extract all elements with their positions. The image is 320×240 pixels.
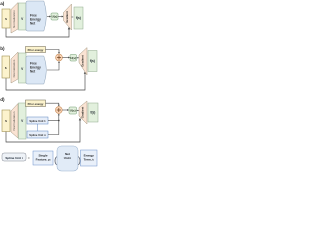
wire spline unit 1 to sum bus (panel c) — [48, 120, 59, 122]
svg-text:Term, tᵢ: Term, tᵢ — [84, 158, 95, 162]
svg-text:f(s): f(s) — [90, 59, 95, 63]
wire U(s) to gradient trapezoid (panel a) — [58, 16, 62, 18]
Free Energy Net box (panel b) — [26, 56, 46, 84]
wire U(s) to gradient trapezoid (panel c) — [77, 110, 79, 112]
wire FEN to U(s) (panel a) — [47, 16, 50, 18]
junction dot — [58, 120, 60, 122]
arrowhead into gradient trapezoid panel a — [68, 27, 70, 30]
svg-text:Prior energy: Prior energy — [28, 102, 44, 106]
U(s) box (panel a) — [51, 13, 58, 20]
svg-text:Unit i: Unit i — [64, 156, 72, 160]
svg-text:s: s — [5, 119, 7, 123]
svg-text:Spline Unit i: Spline Unit i — [5, 156, 23, 160]
svg-text:U(s): U(s) — [70, 56, 76, 60]
sum junction circle (panel c) — [55, 107, 62, 114]
gradient trapezoid (panel a) — [64, 4, 72, 30]
wire prior energy to sum (panel c) — [46, 103, 59, 105]
svg-text:f(s): f(s) — [76, 16, 81, 20]
sum junction circle (panel b) — [56, 54, 63, 61]
wire sum to U(s) (panel c) — [62, 109, 68, 111]
gradient trapezoid (panel c) — [79, 101, 87, 124]
normalization parallelogram (panel b) — [11, 52, 18, 83]
wire U(s) to gradient trapezoid (panel b) — [77, 57, 79, 59]
normalization trapezoid (panel c) — [11, 104, 18, 139]
svg-text:d): d) — [0, 97, 5, 102]
Spline Unit 1 box (panel c) — [27, 117, 48, 124]
svg-text:a): a) — [0, 1, 5, 6]
wire feedback loop panel b — [6, 73, 85, 90]
U(s) box (panel c) — [69, 107, 77, 114]
output box f(s) (panel c) — [88, 103, 98, 122]
wire prior energy to sum (panel b) — [46, 50, 60, 53]
wire feedback loop panel c — [6, 120, 80, 142]
svg-text:b): b) — [0, 46, 5, 51]
svg-text:Feature, pᵢ: Feature, pᵢ — [36, 158, 51, 162]
feature box V (panel b) — [19, 53, 27, 83]
svg-text:U(s): U(s) — [70, 109, 76, 113]
svg-text:Normalization: Normalization — [12, 111, 16, 130]
legend: net unit shape — [57, 146, 78, 171]
input box s (panel a) — [2, 9, 10, 28]
U(s) box (panel b) — [70, 55, 77, 62]
svg-text:s: s — [5, 66, 7, 70]
svg-text:s: s — [5, 17, 7, 21]
input box s (panel c) — [2, 110, 10, 132]
Free Energy Net box (panel a) — [26, 1, 46, 31]
gradient trapezoid (panel b) — [79, 48, 87, 76]
svg-text:Gradient: Gradient — [80, 107, 84, 119]
Prior energy box (panel b) — [26, 47, 46, 53]
svg-text:Normalization: Normalization — [12, 10, 16, 28]
svg-text:U(s): U(s) — [52, 15, 58, 19]
arrowhead into gradient trapezoid panel b — [84, 71, 86, 74]
wire trapezoid to f(s) (panel a) — [72, 16, 74, 18]
Spline Unit n box (panel c) — [27, 131, 48, 138]
svg-text:=: = — [28, 156, 30, 160]
normalization parallelogram (panel a) — [11, 3, 18, 34]
svg-text:Spline Unit 1: Spline Unit 1 — [29, 119, 46, 123]
Prior energy box (panel c) — [26, 100, 46, 107]
output box f(s) (panel b) — [88, 51, 97, 72]
feature box V (panel c) — [19, 103, 27, 139]
wire feedback loop panel a — [6, 28, 69, 37]
legend: Spline Unit i box — [2, 153, 26, 161]
svg-text:Prior energy: Prior energy — [28, 48, 44, 52]
svg-text:Normalization: Normalization — [12, 59, 16, 77]
wire sum to U(s) (panel b) — [62, 57, 68, 59]
wire spline unit n to sum bus (panel c) — [48, 115, 59, 135]
svg-text:f(s): f(s) — [90, 111, 95, 115]
feature box V (panel a) — [19, 3, 27, 30]
input box s (panel b) — [2, 56, 10, 78]
svg-text:Gradient: Gradient — [65, 11, 69, 23]
output box f(s) (panel a) — [74, 7, 83, 29]
wire FEN to sum (panel b) — [47, 62, 59, 70]
svg-text:Gradient: Gradient — [80, 55, 84, 67]
arrowhead into gradient trapezoid panel c — [79, 118, 81, 121]
legend: single feature box — [33, 151, 53, 165]
legend: energy term box — [81, 150, 98, 166]
svg-text:Spline Unit n: Spline Unit n — [29, 133, 46, 137]
connector between spline units — [37, 124, 39, 131]
